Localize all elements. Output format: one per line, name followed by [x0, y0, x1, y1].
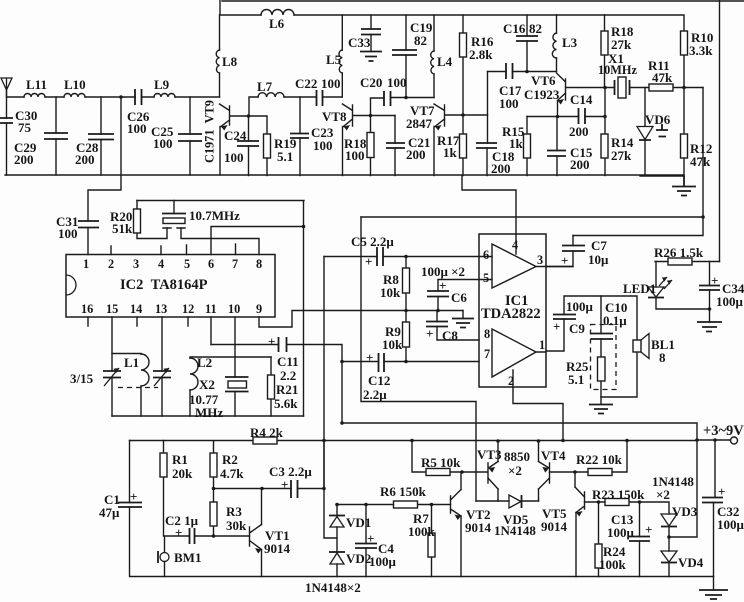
svg-text:100: 100 [345, 148, 365, 163]
svg-text:9: 9 [256, 302, 262, 316]
svg-text:27k: 27k [611, 148, 632, 163]
svg-text:47μ: 47μ [99, 505, 120, 520]
svg-text:2847: 2847 [406, 116, 433, 131]
svg-text:+: + [711, 273, 718, 288]
svg-text:11: 11 [205, 302, 217, 316]
svg-text:L5: L5 [326, 52, 342, 67]
svg-text:30k: 30k [226, 518, 247, 533]
svg-text:15: 15 [106, 302, 118, 316]
svg-text:75: 75 [18, 120, 32, 135]
svg-text:R5 10k: R5 10k [421, 455, 461, 470]
svg-text:C8: C8 [442, 328, 458, 343]
svg-text:12: 12 [182, 302, 194, 316]
svg-text:+: + [561, 253, 568, 268]
svg-text:100k: 100k [408, 524, 436, 539]
svg-text:5.1: 5.1 [568, 372, 584, 387]
svg-text:1: 1 [539, 338, 545, 352]
svg-text:VD2: VD2 [346, 551, 371, 566]
svg-text:C1971 VT9: C1971 VT9 [203, 100, 217, 163]
svg-text:8: 8 [659, 350, 666, 365]
svg-text:+: + [175, 525, 182, 540]
svg-text:VD6: VD6 [645, 112, 671, 127]
svg-text:9014: 9014 [541, 519, 568, 534]
svg-text:2.8k: 2.8k [469, 47, 493, 62]
svg-text:VT8: VT8 [322, 109, 347, 124]
svg-text:2.2μ: 2.2μ [363, 387, 387, 402]
svg-text:+: + [365, 254, 372, 269]
svg-text:C20: C20 [360, 75, 382, 90]
svg-text:6: 6 [483, 248, 489, 262]
svg-text:10k: 10k [382, 337, 403, 352]
svg-text:C14: C14 [570, 92, 593, 107]
svg-text:VT3: VT3 [477, 447, 502, 462]
svg-text:R26 1.5k: R26 1.5k [654, 245, 704, 260]
svg-text:8: 8 [484, 327, 490, 341]
svg-text:MHz: MHz [195, 405, 223, 420]
svg-text:5: 5 [184, 257, 190, 271]
svg-text:3: 3 [537, 253, 543, 267]
svg-text:C16: C16 [503, 21, 526, 36]
svg-text:10.7MHz: 10.7MHz [189, 208, 240, 223]
svg-text:C7: C7 [591, 238, 607, 253]
svg-text:100: 100 [499, 96, 519, 111]
svg-text:5: 5 [483, 271, 489, 285]
svg-text:5.6k: 5.6k [274, 396, 298, 411]
svg-text:+: + [439, 278, 446, 293]
svg-text:9014: 9014 [465, 520, 492, 535]
svg-text:C11: C11 [277, 354, 299, 369]
svg-text:1: 1 [83, 257, 89, 271]
svg-text:VD4: VD4 [678, 555, 704, 570]
svg-text:5.1: 5.1 [277, 149, 293, 164]
svg-text:100: 100 [224, 150, 244, 165]
svg-text:100: 100 [387, 75, 407, 90]
svg-text:R6 150k: R6 150k [380, 484, 427, 499]
svg-text:0.1μ: 0.1μ [603, 313, 627, 328]
svg-text:14: 14 [130, 302, 142, 316]
svg-text:47k: 47k [690, 154, 711, 169]
svg-text:L4: L4 [437, 54, 453, 69]
svg-text:C1923: C1923 [524, 87, 560, 102]
svg-text:+: + [426, 326, 433, 341]
svg-text:VT4: VT4 [541, 448, 566, 463]
svg-text:10k: 10k [380, 285, 401, 300]
svg-text:C5 2.2μ: C5 2.2μ [351, 234, 394, 249]
svg-text:7: 7 [232, 257, 238, 271]
svg-text:100: 100 [313, 138, 333, 153]
svg-text:L1: L1 [124, 355, 139, 370]
svg-text:IC2 TA8164P: IC2 TA8164P [120, 277, 208, 293]
svg-text:R22 10k: R22 10k [576, 452, 623, 467]
svg-text:7: 7 [484, 347, 490, 361]
svg-text:L2: L2 [197, 355, 212, 370]
svg-text:200: 200 [75, 152, 95, 167]
svg-text:LED1: LED1 [623, 281, 656, 296]
svg-text:8: 8 [256, 257, 262, 271]
svg-text:1N4148: 1N4148 [494, 523, 536, 538]
svg-text:100μ: 100μ [607, 525, 635, 540]
svg-text:1N4148×2: 1N4148×2 [305, 580, 361, 595]
svg-text:16: 16 [81, 302, 93, 316]
svg-text:C12: C12 [368, 373, 390, 388]
svg-text:82: 82 [414, 33, 427, 48]
svg-text:3: 3 [133, 257, 139, 271]
svg-text:6: 6 [208, 257, 214, 271]
svg-text:R3: R3 [226, 504, 242, 519]
svg-text:L3: L3 [562, 35, 578, 50]
svg-text:3/15: 3/15 [70, 371, 94, 386]
svg-text:R4 2k: R4 2k [250, 425, 284, 440]
svg-text:200: 200 [569, 124, 589, 139]
svg-text:+: + [645, 522, 652, 537]
svg-text:2: 2 [108, 257, 114, 271]
svg-text:2.2: 2.2 [280, 368, 296, 383]
svg-text:+: + [268, 334, 275, 349]
svg-text:2: 2 [508, 374, 514, 388]
svg-text:8850: 8850 [504, 449, 530, 464]
svg-text:10MHz: 10MHz [598, 63, 637, 77]
svg-text:200: 200 [570, 157, 590, 172]
svg-text:100μ: 100μ [566, 299, 594, 314]
svg-text:×2: ×2 [656, 487, 670, 502]
svg-text:100: 100 [127, 121, 147, 136]
svg-text:200: 200 [491, 161, 511, 176]
svg-text:+: + [281, 477, 288, 492]
svg-text:C6: C6 [451, 290, 467, 305]
svg-text:200: 200 [14, 152, 34, 167]
svg-text:X2: X2 [199, 377, 215, 392]
svg-text:TDA2822: TDA2822 [481, 306, 541, 322]
svg-text:10: 10 [228, 302, 240, 316]
svg-text:L8: L8 [222, 54, 238, 69]
svg-text:L6: L6 [269, 16, 285, 31]
svg-text:L9: L9 [154, 77, 170, 92]
svg-text:R23 150k: R23 150k [592, 487, 645, 502]
svg-text:L7: L7 [257, 79, 273, 94]
svg-text:C3 2.2μ: C3 2.2μ [269, 464, 312, 479]
svg-text:100: 100 [58, 226, 78, 241]
svg-text:200: 200 [406, 147, 426, 162]
svg-text:L11: L11 [26, 77, 47, 92]
svg-text:R1: R1 [172, 452, 188, 467]
svg-text:L10: L10 [64, 77, 86, 92]
svg-text:100: 100 [153, 136, 173, 151]
svg-text:100μ: 100μ [717, 517, 744, 532]
svg-text:3.3k: 3.3k [689, 43, 713, 58]
svg-text:10μ: 10μ [588, 252, 609, 267]
svg-text:100μ: 100μ [716, 294, 744, 309]
svg-text:82: 82 [529, 21, 542, 36]
svg-text:27k: 27k [611, 37, 632, 52]
svg-text:C9: C9 [569, 321, 585, 336]
svg-text:R2: R2 [222, 452, 238, 467]
svg-text:+: + [367, 531, 374, 546]
svg-text:51k: 51k [112, 221, 133, 236]
svg-text:VT6: VT6 [531, 73, 556, 88]
svg-text:100μ: 100μ [369, 554, 397, 569]
svg-text:20k: 20k [172, 466, 193, 481]
svg-text:4.7k: 4.7k [220, 466, 244, 481]
svg-text:1k: 1k [443, 145, 458, 160]
svg-text:100: 100 [321, 76, 341, 91]
svg-text:VD1: VD1 [346, 515, 371, 530]
svg-text:+: + [553, 319, 560, 334]
svg-text:100k: 100k [599, 557, 627, 572]
svg-text:R21: R21 [276, 382, 298, 397]
svg-text:+: + [366, 350, 373, 365]
svg-text:×2: ×2 [508, 463, 522, 478]
svg-text:BM1: BM1 [174, 550, 201, 565]
svg-text:4: 4 [512, 238, 518, 252]
svg-text:C22: C22 [295, 76, 317, 91]
svg-text:13: 13 [155, 302, 167, 316]
svg-text:9014: 9014 [264, 541, 291, 556]
svg-text:C33: C33 [348, 35, 371, 50]
svg-text:+3~9V: +3~9V [703, 423, 744, 439]
svg-text:100μ ×2: 100μ ×2 [421, 264, 465, 279]
svg-text:47k: 47k [652, 70, 673, 85]
svg-text:C24: C24 [224, 128, 247, 143]
svg-text:+: + [130, 489, 137, 504]
svg-text:VD3: VD3 [672, 504, 698, 519]
svg-text:+: + [718, 484, 725, 499]
svg-text:4: 4 [158, 257, 164, 271]
